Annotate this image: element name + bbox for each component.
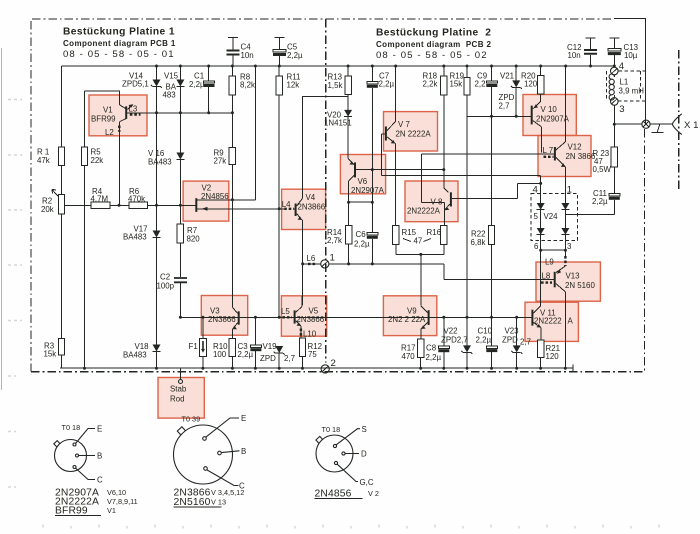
zener diode V23 [511,317,522,368]
transistor V4 [294,199,302,221]
capacitor C8 [438,317,449,368]
svg-text:V 7: V 7 [398,120,410,129]
inductor L1 [609,74,614,100]
svg-text:L8: L8 [542,272,551,281]
svg-text:V19: V19 [263,342,278,351]
svg-text:B: B [97,452,102,461]
svg-text:L10: L10 [303,329,317,338]
svg-text:G,C: G,C [360,478,374,487]
pink highlight box V7 [384,112,438,151]
capacitor C6 [367,233,378,264]
pink highlight box V6 [340,155,385,194]
svg-text:2N5160: 2N5160 [174,497,211,508]
svg-text:470k: 470k [128,194,145,203]
svg-text:Bestückung Platine 2: Bestückung Platine 2 [376,28,491,39]
wire V12 collector to rail [565,66,567,142]
resistor R11 [276,66,282,317]
junction dot V2 drain / R9 [231,198,281,210]
potentiometer R2 [52,190,65,339]
svg-text:2N3866: 2N3866 [298,202,326,211]
resistor R6 [110,202,196,208]
resistor R9 [229,147,235,305]
svg-text:2,2µ: 2,2µ [592,197,608,206]
svg-text:2,2µ: 2,2µ [238,350,254,359]
transistor V10 [532,102,542,127]
svg-text:2,2µ: 2,2µ [189,80,205,89]
svg-text:2N 5160: 2N 5160 [565,281,595,290]
svg-text:L3: L3 [129,105,138,114]
svg-text:C6: C6 [356,230,367,239]
TO39 pin B [218,447,247,456]
wire V7 base down to V24 wire [381,134,383,176]
svg-text:20k: 20k [41,205,54,214]
svg-text:BFR99: BFR99 [91,115,116,124]
svg-text:470: 470 [402,352,416,361]
svg-text:15k: 15k [450,80,463,89]
svg-text:Component diagram PCB 1: Component diagram PCB 1 [63,39,176,48]
wire pin3 down through L9 to V13 [556,250,565,272]
wire R19 tap to V10 base [467,115,531,117]
svg-text:E: E [97,425,102,434]
svg-text:V 3,4,5,12: V 3,4,5,12 [211,488,244,497]
transistor V13 [540,269,565,292]
wire V12 emitter to V24 pin1 [564,167,566,193]
svg-text:1: 1 [567,185,572,196]
TO18 pin G,C [334,461,373,486]
connector X1 [672,114,682,135]
junction dots C6 tap wire [347,201,374,204]
pink highlight box V1 [89,95,147,136]
transistor V6 [348,159,355,182]
svg-text:820: 820 [187,235,201,244]
diode V17 [153,231,161,345]
fuse F1 [200,317,207,368]
svg-text:2,7: 2,7 [520,338,531,347]
svg-text:12k: 12k [287,81,300,90]
diode V15 [176,66,184,153]
pink highlight box V9 [383,296,436,336]
svg-text:V6: V6 [358,177,368,186]
diode V16 [176,153,184,225]
outer dash-dot frame left [30,21,32,372]
connector node 3 [611,98,619,106]
junction dots node1 wire [301,262,374,265]
resistor R21 [537,328,544,369]
test terminal and capacitor C5 [273,38,286,67]
svg-text:L1: L1 [620,78,629,87]
zener diode V19 [274,346,285,368]
svg-text:ZPD: ZPD [502,335,518,344]
svg-text:T0 18: T0 18 [322,425,341,434]
svg-text:V13: V13 [566,272,581,281]
transistor V8 [445,192,451,210]
resistor R3 [58,339,64,369]
svg-text:Component diagram PCB 2: Component diagram PCB 2 [376,40,492,49]
capacitor C10 [486,346,497,368]
TO18 pin B [76,452,103,461]
svg-text:10µ: 10µ [624,51,638,60]
svg-text:ZPD: ZPD [260,354,276,363]
svg-text:V 13: V 13 [211,498,226,507]
TO39 pin E [203,414,247,440]
svg-text:C10: C10 [478,327,493,336]
svg-text:V21: V21 [500,71,514,80]
svg-text:F1: F1 [189,342,198,351]
transistor V11 [532,306,541,328]
top supply rail [62,65,615,67]
svg-text:2,2µ: 2,2µ [379,80,395,89]
wire V6 emitter line to V24 junction [382,175,541,193]
svg-text:1N4151: 1N4151 [324,118,352,127]
resistor R23 [611,147,618,194]
wire V12 base from V8 region [422,153,543,155]
svg-text:47k: 47k [37,156,50,165]
junction dots R4/R6 wire [118,204,182,207]
svg-text:4: 4 [619,61,625,72]
TO39 package case V3/V5 group [174,425,233,484]
ferrite bead L2 [118,126,120,132]
wire V1 base [85,91,126,109]
wire L6 to node 1 [303,263,321,265]
TO18 package case V6/V7 group [54,440,87,472]
outer dash-dot frame right lower [644,129,646,372]
ferrite bead L5 [282,316,292,318]
TO18 pin D [342,449,367,458]
connector node X1 [642,120,650,128]
svg-text:ZPD5,1: ZPD5,1 [122,80,149,89]
svg-text:2,2k: 2,2k [423,80,438,89]
svg-text:V23: V23 [505,327,520,336]
resistor R22 [488,226,494,346]
faint margin artifacts [8,100,22,488]
ferrite bead L9 [564,256,566,266]
svg-text:3,9 mH: 3,9 mH [619,87,645,96]
resistor R1 [58,66,64,194]
transistor V9 [421,306,429,329]
right outer dash-dot border at X1 [678,50,680,190]
junction dots bottom rail [83,367,567,370]
svg-text:27k: 27k [214,157,227,166]
outer frame top-right solid corner [614,19,645,125]
ferrite bead L6 [308,263,317,265]
pink highlight box V11 [525,302,578,341]
svg-text:2N2907A: 2N2907A [536,114,570,123]
svg-text:L9: L9 [545,258,554,267]
junction dots V10 base wire [490,115,518,118]
connector node 1 [321,260,329,268]
zener diode V14 [151,66,162,231]
svg-text:V12: V12 [568,142,582,151]
zener diode V21 [511,66,522,116]
svg-text:8,2k: 8,2k [240,81,255,90]
svg-text:R16: R16 [427,228,442,237]
diode V18 [153,345,161,369]
resistor R19 [464,66,470,317]
capacitor C9 [486,66,497,226]
outer dash-dot frame bottom [31,371,643,373]
title Platine 1 [63,27,176,61]
svg-text:2,2: 2,2 [475,80,486,89]
wire pin6 bar down to V11 collector [540,250,542,306]
svg-text:6,8k: 6,8k [471,238,486,247]
svg-text:3: 3 [619,104,624,115]
svg-text:BFR99: BFR99 [55,506,88,517]
stab rod connector stub [180,368,182,379]
resistor R12 [299,326,305,368]
TO18 package case V2 [316,435,353,472]
TO18 pin E [73,425,102,447]
title Platine 2 [376,28,492,62]
capacitor C7 [367,66,378,233]
resistor R20 [538,66,544,102]
svg-text:V15: V15 [164,71,179,80]
svg-text:2N2 2 22A: 2N2 2 22A [388,315,426,324]
svg-text:V 2: V 2 [368,489,379,498]
resistor R18 [441,66,447,170]
ferrite bead L10 [300,329,302,338]
junction dots V24 lower bar [539,65,616,252]
wire V1 emitter down [118,122,120,206]
TO18 pin C [73,466,103,485]
resistor R4 [65,202,110,208]
svg-text:100p: 100p [157,282,175,291]
resistor R13 [345,66,351,110]
wire V6 base to R18 column [356,169,444,171]
capacitor C3 [250,317,261,368]
wire V4 emitter down [302,220,304,305]
svg-text:A: A [568,316,574,325]
svg-text:2N4856: 2N4856 [315,489,352,500]
test terminal and capacitor C12 [584,38,597,66]
svg-text:V22: V22 [444,327,458,336]
V24 internal leads [541,193,566,240]
svg-text:BA483: BA483 [123,233,147,242]
wire V4 collector up and over to R13 [303,97,348,199]
svg-text:22k: 22k [91,156,104,165]
svg-text:120: 120 [524,79,538,88]
svg-text:08 - 05 - 58 - 05 - 01: 08 - 05 - 58 - 05 - 01 [63,49,175,60]
svg-text:75: 75 [308,350,317,359]
pink highlight box Stab Rod [158,378,204,419]
wire V8 emitter to R16 [444,210,446,226]
svg-text:S: S [362,425,367,434]
junction dots V6 base wire [371,168,446,171]
svg-text:BA483: BA483 [123,350,147,359]
zener diode V22 [462,317,473,368]
svg-text:V7,8,9,11: V7,8,9,11 [107,497,138,506]
ferrite bead L8 [541,281,552,283]
pink highlight box V3 [201,296,247,336]
junction dots top rail [155,65,592,68]
svg-text:15k: 15k [44,350,57,359]
svg-text:3: 3 [567,242,572,251]
svg-text:ZPD2,7: ZPD2,7 [441,335,468,344]
pink highlight box V8 [405,181,458,222]
svg-text:2,7: 2,7 [284,354,295,363]
svg-text:D: D [361,449,367,458]
svg-text:T0 39: T0 39 [182,415,201,424]
svg-text:10n: 10n [241,51,254,60]
connector node 2 [321,365,329,373]
resistor R15 [393,226,399,255]
svg-text:08 - 05 - 58 - 05 - 02: 08 - 05 - 58 - 05 - 02 [376,50,488,61]
JFET V2 [196,198,284,212]
page edge scan line [1,48,3,390]
transistor V5 [295,296,302,326]
wire V8 base to V24 step [452,183,541,198]
svg-text:0,5W: 0,5W [593,165,612,174]
pink highlight box V4 [282,189,326,229]
pink highlight box V13 [536,262,600,301]
transistor V7 [382,122,396,144]
wire C6 tap [349,201,373,203]
svg-text:483: 483 [163,91,177,100]
junction dots base line [179,316,518,319]
capacitor C2 [174,278,187,317]
connector node 4 [611,67,619,75]
svg-text:100: 100 [213,350,227,359]
wire V2 drain riser to rail [254,66,256,200]
wire node3 down to X1 wire [613,105,615,147]
svg-text:B: B [241,447,246,456]
transistor V1 [119,104,133,122]
svg-text:4,7M: 4,7M [91,194,109,203]
svg-text:T0 18: T0 18 [62,423,81,432]
outer dash-dot frame top [32,18,614,20]
wire V24 pins 6,3 joining bar [541,240,566,250]
svg-text:V6,10: V6,10 [107,488,126,497]
pink highlight box V12 [538,136,591,177]
svg-text:2,2µ: 2,2µ [476,335,492,344]
svg-text:V4: V4 [306,193,316,202]
V24 diode c [537,228,545,235]
pink highlight box V2 [183,181,229,221]
svg-text:2N2907A: 2N2907A [351,186,385,195]
wire X1 output [614,123,642,125]
TO18 pin S [333,425,366,448]
test terminal and capacitor C13 [608,38,621,67]
resistor R5 [81,91,87,368]
L1 dashed shield box [607,71,645,101]
resistor R16 [441,226,447,255]
rectifier V24 dashed box [531,193,578,240]
V24 diode b [561,203,569,210]
svg-text:L6: L6 [307,254,316,263]
svg-text:V2: V2 [202,183,212,192]
svg-text:E: E [241,414,246,423]
wire V6 collector down to R14 [348,181,350,226]
faint bottom dotted rows [43,525,659,529]
resistor R8 [229,66,235,147]
TO39 pin C [204,467,245,491]
svg-text:2: 2 [331,358,336,369]
svg-text:C: C [97,476,103,485]
ferrite bead L4 [284,208,294,210]
V24 diode d [561,228,569,235]
svg-text:2N2222: 2N2222 [534,316,562,325]
resistor R14 [345,226,351,264]
svg-text:V24: V24 [544,212,559,221]
bottom ground rail [60,367,573,369]
svg-text:2,7k: 2,7k [327,236,342,245]
svg-text:2,2µ: 2,2µ [426,353,442,362]
junction dots V1 collector wire [155,111,234,114]
svg-text:2N4856: 2N4856 [201,192,229,201]
svg-text:2N3866: 2N3866 [297,315,325,324]
svg-text:V 8: V 8 [431,198,443,207]
svg-text:V1: V1 [107,506,116,515]
base line V3-V5-V9-V11 [180,316,532,318]
svg-text:47: 47 [414,237,423,246]
wire R18 to V8 collector [444,170,449,193]
X1 shield tap [652,124,664,132]
pink highlight box V10 [523,95,576,136]
svg-text:V 10: V 10 [541,105,558,114]
pink highlight box V5 [281,296,326,336]
resistor R7 [177,224,183,277]
svg-text:2N 2222A: 2N 2222A [396,129,432,138]
wire V7 emitter to R15 [394,144,396,226]
svg-text:V1: V1 [103,106,113,115]
svg-text:L5: L5 [281,307,290,316]
svg-text:Rod: Rod [170,395,184,404]
wire R15/R16 bottom bar to V9 collector [396,254,444,305]
svg-text:2N3866: 2N3866 [208,315,236,324]
resistor R10 [229,331,235,369]
bottom rail end tick [572,365,574,373]
svg-text:1,5k: 1,5k [328,81,343,90]
test terminal and capacitor C4 [227,38,240,67]
svg-text:2,2µ: 2,2µ [287,51,303,60]
svg-text:2,7: 2,7 [499,101,510,110]
wire V8 emitter link [422,154,445,210]
svg-text:Stab: Stab [170,385,187,394]
node 1 wire to R14/C6/step [329,264,540,280]
diode V20 [344,110,352,159]
svg-text:X 1: X 1 [684,120,698,131]
svg-text:Bestückung Platine 1: Bestückung Platine 1 [63,27,175,38]
svg-text:L 7: L 7 [543,146,554,155]
svg-text:2,2µ: 2,2µ [354,239,370,248]
svg-text:1: 1 [330,253,335,264]
svg-text:5: 5 [534,212,539,221]
transistor V3 [232,305,238,331]
wire V1 collector to C1/R8 [127,112,232,114]
svg-text:2N2222A: 2N2222A [407,206,441,215]
svg-text:120: 120 [546,352,560,361]
wire V10 collector to V12 base [540,127,542,153]
capacitor C1 [204,66,215,113]
PCB divider dash-dot line [325,19,327,363]
junction dot V24 pin4 node [419,182,542,256]
svg-text:BA483: BA483 [148,157,172,166]
capacitor C11 [565,194,619,215]
svg-text:6: 6 [534,242,539,251]
svg-text:C8: C8 [426,344,437,353]
wire node to X1 jack [650,123,672,125]
svg-text:10n: 10n [568,51,581,60]
V24 diode a [537,203,545,210]
svg-text:L2: L2 [105,128,114,137]
transistor V12 [543,142,566,168]
svg-text:R7: R7 [187,226,197,235]
resistor R17 [417,328,424,368]
wire V13 emitter to bottom rail [564,292,566,368]
svg-text:L4: L4 [282,200,291,209]
wire V7 collector to rail [395,66,397,122]
svg-text:2N 3866: 2N 3866 [566,152,596,161]
svg-text:C2: C2 [160,273,170,282]
